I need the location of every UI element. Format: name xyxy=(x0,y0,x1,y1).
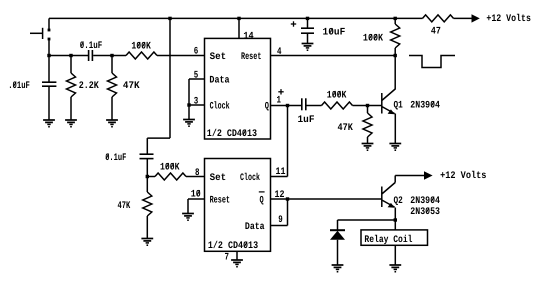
node collector junction xyxy=(394,54,397,57)
pin 3 wire xyxy=(189,104,205,106)
resistor 47K (upper left) xyxy=(108,56,117,121)
pin 5 wire xyxy=(189,79,205,105)
pin label 12 xyxy=(275,190,285,201)
resistor 47 ohm xyxy=(423,15,454,22)
svg-text:47: 47 xyxy=(431,27,441,38)
pin label 9 xyxy=(278,215,283,226)
label U2 Clock xyxy=(240,172,260,184)
node Q1 output junction xyxy=(286,104,289,107)
svg-text:Q2: Q2 xyxy=(394,196,403,207)
ground under 47K (middle) xyxy=(362,144,374,152)
resistor 100K (lower) xyxy=(155,173,186,180)
label 47K (lower) xyxy=(118,201,131,212)
label +12 Volts (bottom) xyxy=(440,170,486,182)
node lower junction xyxy=(146,175,149,178)
node 47K middle top xyxy=(366,104,369,107)
label U1 Data xyxy=(209,76,229,87)
svg-text:Set: Set xyxy=(210,52,227,63)
svg-text:Reset: Reset xyxy=(210,196,230,207)
svg-text:47K: 47K xyxy=(123,81,140,92)
svg-text:10uF: 10uF xyxy=(323,28,346,39)
label 100K (vertical) xyxy=(363,34,383,45)
wire relay to ground xyxy=(394,245,396,265)
node top rail to lower circuit xyxy=(168,17,171,20)
label Q2 2N3904 xyxy=(410,196,440,207)
pin label 7 xyxy=(225,253,230,264)
wire Q2 emitter xyxy=(394,208,396,230)
label 0.1uF (lower) xyxy=(105,153,126,164)
wire Q1 emitter to ground xyxy=(394,114,396,144)
pin label 11 xyxy=(276,167,286,178)
label Q1 xyxy=(394,101,403,112)
wire top rail down to lower 0.1uF xyxy=(147,18,170,154)
pin 4 wire (Reset) xyxy=(271,55,396,57)
capacitor 10uF xyxy=(301,18,314,43)
pin label 8 xyxy=(195,168,200,179)
resistor 2.2K xyxy=(67,56,76,121)
pin label 10 xyxy=(191,190,201,201)
ground under .01uF xyxy=(43,120,55,128)
pin label 14 xyxy=(243,32,253,43)
pin label 1 xyxy=(277,96,282,107)
label U1 Clock xyxy=(210,101,230,113)
svg-text:8: 8 xyxy=(195,168,200,179)
label 0.1uF (upper) xyxy=(80,41,103,52)
wire 100K to pin 8 xyxy=(186,176,205,178)
svg-text:Clock: Clock xyxy=(240,172,260,184)
svg-text:47K: 47K xyxy=(338,123,353,134)
label Relay Coil xyxy=(364,234,412,246)
wire 100K to pin 6 xyxy=(157,55,205,57)
wire junction to 100K xyxy=(147,176,155,178)
pin label 5 xyxy=(194,71,199,82)
op-amp U1 1/2 CD4013 box xyxy=(205,38,271,139)
diode D1 xyxy=(330,220,345,265)
svg-text:+12 Volts: +12 Volts xyxy=(486,13,531,25)
capacitor 0.1uF (upper) xyxy=(89,50,126,61)
wire 100K to Q1 base xyxy=(353,105,382,107)
svg-text:1uF: 1uF xyxy=(298,115,315,126)
node pins 3-5 junction xyxy=(187,103,190,106)
svg-text:Relay Coil: Relay Coil xyxy=(364,234,412,246)
svg-text:1/2 CD4013: 1/2 CD4013 xyxy=(207,128,257,140)
svg-text:1: 1 xyxy=(277,96,282,107)
svg-text:Q: Q xyxy=(260,196,264,207)
label U1 Reset xyxy=(241,52,261,63)
node 10uF top xyxy=(306,17,309,20)
plus sign 10uF xyxy=(291,21,296,26)
svg-text:100K: 100K xyxy=(160,162,180,173)
label U1 1/2 CD4013 xyxy=(207,128,257,140)
ground under 10uF xyxy=(302,44,314,52)
label 47K (upper left) xyxy=(123,81,140,92)
plus sign 1uF xyxy=(278,89,283,94)
resistor 47K (middle) xyxy=(363,106,372,144)
pin 1 wire (Q) xyxy=(271,105,302,107)
svg-text:Data: Data xyxy=(209,76,229,87)
ground under 2.2K xyxy=(65,120,77,128)
svg-text:100K: 100K xyxy=(363,34,383,45)
node 47K top xyxy=(110,54,113,57)
svg-text:12: 12 xyxy=(275,190,285,201)
svg-text:Clock: Clock xyxy=(210,101,230,113)
svg-text:6: 6 xyxy=(194,47,199,58)
transistor Q1 2N3904 xyxy=(382,89,395,114)
svg-text:2N3904: 2N3904 xyxy=(410,196,440,207)
+12V arrow (bottom) xyxy=(424,171,433,179)
label Q2 2N3053 xyxy=(410,207,440,218)
capacitor .01uF xyxy=(42,56,56,121)
node 2.2K top xyxy=(69,54,72,57)
wire left input rail xyxy=(49,55,88,57)
svg-text:1/2 CD4013: 1/2 CD4013 xyxy=(208,240,258,252)
label U1 Set xyxy=(210,52,227,63)
resistor 47K (lower) xyxy=(143,177,152,239)
ground under pin 7 xyxy=(231,260,243,268)
label U2 Data xyxy=(245,222,265,233)
svg-text:100K: 100K xyxy=(327,90,347,101)
wire to diode xyxy=(338,219,396,221)
svg-text:7: 7 xyxy=(225,253,230,264)
node pin 14 on rail xyxy=(237,17,240,20)
label U1 Q xyxy=(265,102,269,113)
label 100K (middle) xyxy=(327,90,347,101)
ground under relay xyxy=(389,265,401,273)
svg-text:9: 9 xyxy=(278,215,283,226)
svg-text:11: 11 xyxy=(276,167,286,178)
svg-text:2.2K: 2.2K xyxy=(79,81,99,92)
label +12 Volts (top) xyxy=(486,13,531,25)
label U2 Set xyxy=(210,173,227,184)
svg-text:2N3904: 2N3904 xyxy=(410,101,440,112)
ground under pin 10 xyxy=(182,214,194,222)
label 2.2K xyxy=(79,81,99,92)
label 47K (middle) xyxy=(338,123,353,134)
pin 10 wire xyxy=(188,199,205,214)
pin 12 wire (Qbar) xyxy=(271,198,382,200)
wire Q2 collector xyxy=(395,176,424,183)
svg-text:4: 4 xyxy=(277,47,282,58)
svg-text:Data: Data xyxy=(245,222,265,233)
wire Q1 collector xyxy=(394,56,396,90)
svg-text:+12 Volts: +12 Volts xyxy=(440,170,486,182)
pin label 4 xyxy=(277,47,282,58)
svg-text:2N3053: 2N3053 xyxy=(410,207,440,218)
label Q1 2N3904 xyxy=(410,101,440,112)
svg-text:Q: Q xyxy=(265,102,269,113)
label U2 Reset xyxy=(210,196,230,207)
resistor 100K (vertical) xyxy=(391,18,400,55)
ground under pins 3-5 xyxy=(183,120,195,128)
relay coil box xyxy=(361,230,428,245)
ground under 47K (lower) xyxy=(141,239,153,247)
svg-text:100K: 100K xyxy=(131,41,151,52)
label 47 ohms xyxy=(431,27,441,38)
node Qbar junction xyxy=(286,197,289,200)
ground under 47K (upper left) xyxy=(106,120,118,128)
ground under Q1 emitter xyxy=(389,144,401,152)
svg-text:5: 5 xyxy=(194,71,199,82)
capacitor 0.1uF (lower) xyxy=(140,154,154,176)
svg-text:Reset: Reset xyxy=(241,52,261,63)
wire top +12V rail xyxy=(49,18,423,30)
label .01uF xyxy=(8,81,30,92)
pin label 3 xyxy=(194,97,199,108)
svg-text:47K: 47K xyxy=(118,201,131,212)
wire pushbutton to node A xyxy=(48,39,50,56)
wire 47 ohm to arrow xyxy=(454,17,473,19)
transistor Q2 2N3904/2N3053 xyxy=(382,183,395,208)
label U2 1/2 CD4013 xyxy=(208,240,258,252)
node 100K top on rail xyxy=(394,17,397,20)
label 100K (upper left) xyxy=(131,41,151,52)
pin 7 wire xyxy=(236,251,238,260)
pushbutton switch S1 xyxy=(30,28,50,41)
+12V arrow (top) xyxy=(472,14,480,22)
pin 14 wire xyxy=(238,18,240,38)
resistor 100K (middle) xyxy=(322,102,353,109)
wire pin3 to ground xyxy=(188,105,190,120)
label U2 Qbar xyxy=(259,192,265,207)
pulse waveform symbol xyxy=(409,56,455,68)
svg-text:Set: Set xyxy=(210,173,227,184)
svg-text:14: 14 xyxy=(243,32,253,43)
resistor 100K (upper left) xyxy=(126,52,157,59)
node emitter-diode junction xyxy=(394,218,397,221)
capacitor 1uF xyxy=(302,98,322,110)
svg-text:Q1: Q1 xyxy=(394,101,403,112)
op-amp U2 1/2 CD4013 box xyxy=(205,159,271,252)
pin label 6 xyxy=(194,47,199,58)
wire Q1-out down to U2 clock xyxy=(271,106,288,177)
pin 9 wire (Data) xyxy=(271,199,288,226)
ground under diode xyxy=(332,265,344,273)
label 10uF xyxy=(323,28,346,39)
label Q2 xyxy=(394,196,403,207)
node A junction xyxy=(47,54,50,57)
label 100K (lower) xyxy=(160,162,180,173)
label 1uF xyxy=(298,115,315,126)
svg-text:.01uF: .01uF xyxy=(8,81,30,92)
svg-text:3: 3 xyxy=(194,97,199,108)
